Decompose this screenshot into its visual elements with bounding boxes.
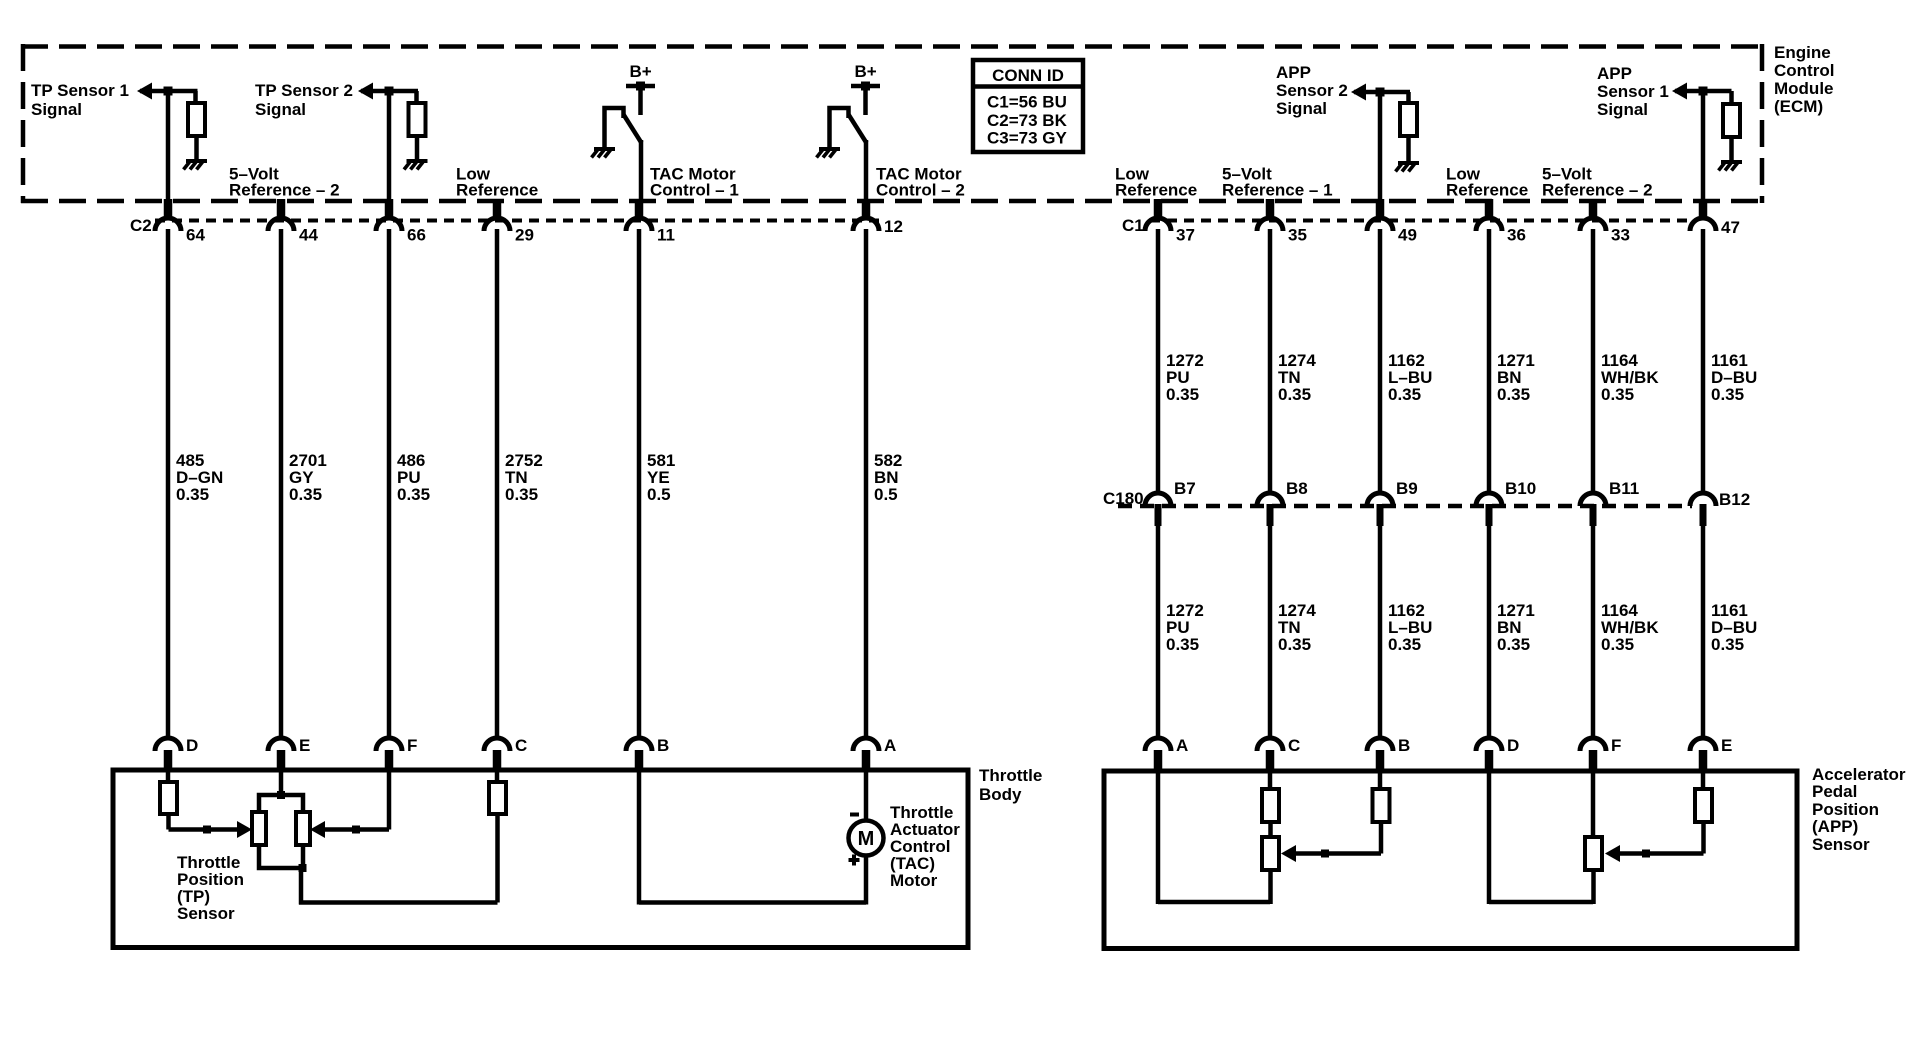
wire C resistor to TP bottom bbox=[495, 814, 500, 903]
potentiometer TP element left half bbox=[252, 812, 266, 845]
pin 49 ECM connector terminal bbox=[1367, 199, 1417, 245]
resistor APP2 wiper series bbox=[1373, 789, 1390, 822]
wire circuit 1162 0.35 upper segment bbox=[1378, 229, 1383, 494]
value label 1161 D&#8211;BU 0.35 lower bbox=[1711, 601, 1757, 654]
arrow APP1 wiper bbox=[1605, 845, 1620, 862]
svg-text:E: E bbox=[1721, 736, 1732, 755]
svg-text:A: A bbox=[1176, 736, 1188, 755]
svg-text:Throttle: Throttle bbox=[979, 766, 1042, 785]
label Accelerator Pedal Position (APP) Sensor bbox=[1812, 765, 1906, 854]
node TP wiper right junction bbox=[352, 826, 360, 834]
svg-text:49: 49 bbox=[1398, 226, 1417, 245]
value label 1274 TN 0.35 lower bbox=[1278, 601, 1316, 654]
ground TAC 2 contact bbox=[817, 108, 849, 158]
resistor TP1 pull-up bbox=[188, 103, 205, 136]
svg-text:B11: B11 bbox=[1609, 479, 1639, 498]
svg-text:C1: C1 bbox=[1122, 216, 1144, 235]
svg-text:Reference: Reference bbox=[456, 181, 538, 200]
pin C APP sensor connector bbox=[1257, 736, 1300, 771]
wire pin F into pot bbox=[1591, 770, 1596, 838]
wire pin E APP1 wiper bbox=[1701, 770, 1706, 790]
wire circuit 2701 0.35 bbox=[279, 229, 284, 739]
svg-text:0.35: 0.35 bbox=[1711, 385, 1744, 404]
node TP bottom junction bbox=[299, 864, 307, 872]
value label 582 BN 0.5 bbox=[874, 451, 902, 504]
wire circuit 1271 0.35 upper segment bbox=[1487, 229, 1492, 494]
net 5-Volt Reference - 2 (pin 44) bbox=[229, 165, 340, 200]
value label 485 D&#8211;GN 0.35 bbox=[176, 451, 223, 504]
svg-text:B+: B+ bbox=[855, 62, 877, 81]
ground TAC 1 contact bbox=[592, 108, 624, 158]
svg-text:Reference – 2: Reference – 2 bbox=[229, 181, 340, 200]
svg-text:Sensor 1: Sensor 1 bbox=[1597, 82, 1669, 101]
label Throttle Body bbox=[979, 766, 1042, 804]
svg-text:0.35: 0.35 bbox=[1278, 635, 1311, 654]
svg-text:Body: Body bbox=[979, 785, 1022, 804]
label APP Sensor 1 Signal bbox=[1597, 64, 1669, 119]
node APP2 junction bbox=[1376, 88, 1385, 97]
value label 1161 D&#8211;BU 0.35 upper bbox=[1711, 351, 1757, 404]
resistor TP sensor terminal C bbox=[489, 782, 506, 814]
pin 12 ECM connector terminal bbox=[853, 199, 903, 236]
arrow APP2 wiper bbox=[1281, 845, 1296, 862]
svg-text:M: M bbox=[858, 828, 875, 850]
wire TP1 horizontal bbox=[140, 89, 198, 94]
wire circuit 486 0.35 bbox=[387, 229, 392, 739]
Throttle Body box bbox=[113, 770, 968, 948]
label TP Sensor 2 Signal bbox=[255, 81, 353, 119]
svg-text:0.35: 0.35 bbox=[1601, 385, 1634, 404]
wire circuit 1274 0.35 upper segment bbox=[1268, 229, 1273, 494]
svg-text:Signal: Signal bbox=[31, 100, 82, 119]
resistor APP1 wiper series bbox=[1695, 789, 1712, 822]
wire pin D into box bbox=[166, 770, 171, 783]
power B+ TAC 2 bbox=[851, 62, 880, 115]
wire pin 47 internal bbox=[1701, 91, 1706, 202]
resistor APP2 series element bbox=[1262, 789, 1279, 822]
wire pin B APP2 wiper bbox=[1378, 770, 1383, 790]
value label 581 YE 0.5 bbox=[647, 451, 675, 504]
switch TAC motor control 2 blade bbox=[849, 115, 867, 144]
svg-text:B12: B12 bbox=[1719, 490, 1750, 509]
svg-text:(ECM): (ECM) bbox=[1774, 97, 1823, 116]
svg-text:0.35: 0.35 bbox=[289, 485, 322, 504]
wire resistor to ground bbox=[194, 136, 199, 161]
svg-text:APP: APP bbox=[1597, 64, 1632, 83]
svg-text:Signal: Signal bbox=[1597, 100, 1648, 119]
svg-text:Control – 2: Control – 2 bbox=[876, 181, 965, 200]
svg-text:D: D bbox=[1507, 736, 1519, 755]
wire resistor to ground bbox=[415, 136, 420, 161]
wire pin C into box bbox=[495, 770, 500, 783]
svg-text:(APP): (APP) bbox=[1812, 817, 1858, 836]
svg-text:Sensor: Sensor bbox=[1812, 835, 1870, 854]
wire circuit 582 0.5 bbox=[864, 229, 869, 739]
connector C180 dashed line bbox=[1118, 504, 1692, 509]
svg-text:0.35: 0.35 bbox=[397, 485, 430, 504]
pin B9 connector C180 bbox=[1367, 479, 1418, 526]
polarity minus bbox=[850, 813, 859, 817]
svg-text:TP Sensor 1: TP Sensor 1 bbox=[31, 81, 129, 100]
svg-text:C3=73 GY: C3=73 GY bbox=[987, 129, 1068, 148]
svg-text:Reference: Reference bbox=[1115, 181, 1197, 200]
svg-text:C1=56 BU: C1=56 BU bbox=[987, 93, 1067, 112]
svg-text:APP: APP bbox=[1276, 63, 1311, 82]
wire pin 49 internal bbox=[1378, 92, 1383, 202]
arrow TP wiper left bbox=[237, 821, 252, 838]
wire circuit 1274 0.35 lower segment bbox=[1268, 525, 1273, 739]
net Low Reference (pin 36) bbox=[1446, 165, 1528, 200]
value label 1271 BN 0.35 lower bbox=[1497, 601, 1535, 654]
wire circuit 2752 0.35 bbox=[495, 229, 500, 739]
net Low Reference (pin 29) bbox=[456, 165, 538, 200]
svg-text:0.35: 0.35 bbox=[1711, 635, 1744, 654]
wire pin D APP low bbox=[1487, 770, 1492, 904]
wire circuit 1164 0.35 upper segment bbox=[1591, 229, 1596, 494]
svg-text:B7: B7 bbox=[1174, 479, 1196, 498]
arrow APP Sensor 2 signal bbox=[1351, 84, 1366, 101]
wire pin E to TP top bbox=[279, 770, 284, 795]
net Low Reference (pin 37) bbox=[1115, 165, 1197, 200]
value label 2752 TN 0.35 bbox=[505, 451, 543, 504]
svg-text:B10: B10 bbox=[1505, 479, 1536, 498]
resistor APP2 pull-up bbox=[1400, 103, 1417, 136]
wire pin C into box bbox=[1268, 770, 1273, 790]
svg-text:0.35: 0.35 bbox=[1166, 385, 1199, 404]
svg-text:D: D bbox=[186, 736, 198, 755]
pin 33 ECM connector terminal bbox=[1580, 199, 1630, 245]
svg-text:C2=73 BK: C2=73 BK bbox=[987, 111, 1068, 130]
node APP1 wiper junction bbox=[1642, 850, 1650, 858]
label Throttle Actuator Control (TAC) Motor bbox=[890, 803, 960, 890]
wire circuit 1161 0.35 upper segment bbox=[1701, 229, 1706, 494]
wire wiper down and left bbox=[1701, 822, 1706, 854]
svg-text:A: A bbox=[884, 736, 896, 755]
pin D APP sensor connector bbox=[1476, 736, 1519, 771]
svg-text:E: E bbox=[299, 736, 310, 755]
svg-text:C180: C180 bbox=[1103, 489, 1144, 508]
node TP2 junction bbox=[385, 87, 394, 96]
node TP top junction bbox=[277, 791, 285, 799]
svg-text:Reference: Reference bbox=[1446, 181, 1528, 200]
label TAC Motor Control - 1 bbox=[650, 165, 739, 200]
power B+ TAC 1 bbox=[626, 62, 655, 115]
wire APP2 stub to resistor bbox=[1406, 92, 1411, 104]
svg-text:44: 44 bbox=[299, 226, 318, 245]
value label 2701 GY 0.35 bbox=[289, 451, 327, 504]
svg-text:Engine: Engine bbox=[1774, 43, 1831, 62]
label TAC Motor Control - 2 bbox=[876, 165, 965, 200]
polarity plus bbox=[849, 855, 860, 866]
wire pot to low rail bbox=[1268, 870, 1273, 904]
ground APP2 bbox=[1396, 163, 1420, 172]
svg-text:11: 11 bbox=[657, 226, 675, 245]
svg-text:Sensor: Sensor bbox=[177, 904, 235, 923]
svg-text:B: B bbox=[1398, 736, 1410, 755]
ECM dashed box border bbox=[21, 44, 1764, 203]
svg-text:B9: B9 bbox=[1396, 479, 1418, 498]
wire TP1 stub to resistor bbox=[193, 91, 198, 104]
pin 47 ECM connector terminal bbox=[1690, 199, 1740, 237]
wire resistor to ground bbox=[1729, 137, 1734, 162]
svg-text:0.35: 0.35 bbox=[1601, 635, 1634, 654]
svg-text:B+: B+ bbox=[630, 62, 652, 81]
potentiometer APP2 element bbox=[1262, 837, 1279, 870]
svg-text:Signal: Signal bbox=[1276, 99, 1327, 118]
svg-text:64: 64 bbox=[186, 226, 205, 245]
net 5-Volt Reference - 2 (pin 33) bbox=[1542, 165, 1653, 200]
potentiometer TP element right half bbox=[296, 812, 310, 845]
net 5-Volt Reference - 1 (pin 35) bbox=[1222, 165, 1333, 200]
svg-text:Module: Module bbox=[1774, 79, 1834, 98]
pin B7 connector C180 bbox=[1145, 479, 1196, 526]
svg-text:0.35: 0.35 bbox=[176, 485, 209, 504]
wire pin B to motor return bbox=[637, 770, 642, 905]
value label 1272 PU 0.35 lower bbox=[1166, 601, 1204, 654]
svg-text:29: 29 bbox=[515, 226, 534, 245]
wire circuit 581 0.5 bbox=[637, 229, 642, 739]
wire TP2 horizontal bbox=[361, 89, 418, 94]
value label 1274 TN 0.35 upper bbox=[1278, 351, 1316, 404]
pin C throttle body connector bbox=[484, 736, 527, 771]
pin 37 ECM connector terminal bbox=[1145, 199, 1195, 245]
label TP Sensor 1 Signal bbox=[31, 81, 129, 119]
wire TAC 2 to pin bbox=[864, 140, 869, 202]
svg-text:0.35: 0.35 bbox=[1166, 635, 1199, 654]
wire pin A to motor bbox=[864, 770, 869, 821]
ground TP2 bbox=[404, 161, 428, 170]
node TP wiper left junction bbox=[203, 826, 211, 834]
value label 1164 WH/BK 0.35 lower bbox=[1601, 601, 1659, 654]
svg-text:Pedal: Pedal bbox=[1812, 782, 1857, 801]
svg-text:C: C bbox=[515, 736, 527, 755]
node APP2 wiper junction bbox=[1321, 850, 1329, 858]
svg-text:0.5: 0.5 bbox=[874, 485, 898, 504]
svg-text:B: B bbox=[657, 736, 669, 755]
ground APP1 bbox=[1719, 162, 1743, 171]
svg-text:Signal: Signal bbox=[255, 100, 306, 119]
wire pin 64 internal bbox=[166, 91, 171, 202]
svg-text:12: 12 bbox=[884, 217, 903, 236]
wire APP2 horizontal bbox=[1354, 90, 1410, 95]
ground TP1 bbox=[184, 161, 208, 170]
wire circuit 1164 0.35 lower segment bbox=[1591, 525, 1596, 739]
pin B8 connector C180 bbox=[1257, 479, 1308, 526]
pin B10 connector C180 bbox=[1476, 479, 1536, 526]
svg-text:37: 37 bbox=[1176, 226, 1195, 245]
pin 44 ECM connector terminal bbox=[268, 199, 318, 245]
svg-text:35: 35 bbox=[1288, 226, 1307, 245]
svg-text:C2: C2 bbox=[130, 216, 152, 235]
CONN ID table bbox=[973, 60, 1083, 152]
pin A throttle body connector bbox=[853, 736, 896, 771]
connector C1 dotted line bbox=[1150, 219, 1692, 223]
wire APP1 stub to resistor bbox=[1729, 91, 1734, 105]
potentiometer APP1 element bbox=[1585, 837, 1602, 870]
label Throttle Position (TP) Sensor bbox=[177, 853, 244, 923]
wire wiper down and left bbox=[1379, 822, 1384, 854]
pin B throttle body connector bbox=[626, 736, 669, 771]
svg-text:0.35: 0.35 bbox=[1388, 385, 1421, 404]
connector C2 dotted line bbox=[155, 219, 884, 223]
value label 1164 WH/BK 0.35 upper bbox=[1601, 351, 1659, 404]
wire pin A APP low bbox=[1156, 770, 1161, 904]
wire D resistor to wiper arm bbox=[166, 814, 171, 830]
wire TAC 1 to pin bbox=[639, 140, 644, 202]
svg-text:Motor: Motor bbox=[890, 871, 938, 890]
svg-text:F: F bbox=[1611, 736, 1621, 755]
arrow TP wiper right bbox=[310, 821, 325, 838]
pin 11 ECM connector terminal bbox=[626, 199, 675, 245]
value label 486 PU 0.35 bbox=[397, 451, 430, 504]
svg-text:F: F bbox=[407, 736, 417, 755]
wire pot to low rail bbox=[1591, 870, 1596, 904]
wire pin F to right wiper bbox=[387, 770, 392, 830]
label APP Sensor 2 Signal bbox=[1276, 63, 1348, 118]
node TP1 junction bbox=[164, 87, 173, 96]
svg-text:TP Sensor 2: TP Sensor 2 bbox=[255, 81, 353, 100]
svg-text:0.35: 0.35 bbox=[1497, 635, 1530, 654]
wire circuit 1272 0.35 upper segment bbox=[1156, 229, 1161, 494]
wire motor to return bbox=[864, 855, 869, 905]
value label 1162 L&#8211;BU 0.35 lower bbox=[1388, 601, 1432, 654]
svg-text:0.35: 0.35 bbox=[1497, 385, 1530, 404]
pin 66 ECM connector terminal bbox=[376, 199, 426, 245]
wire circuit 1272 0.35 lower segment bbox=[1156, 525, 1161, 739]
svg-text:66: 66 bbox=[407, 226, 426, 245]
svg-text:0.35: 0.35 bbox=[1388, 635, 1421, 654]
svg-text:0.35: 0.35 bbox=[505, 485, 538, 504]
pin D throttle body connector bbox=[155, 736, 198, 771]
wire TP bottom bracket bbox=[259, 844, 303, 868]
switch TAC motor control 1 blade bbox=[624, 115, 642, 144]
wire resistor to ground bbox=[1406, 136, 1411, 163]
pin E throttle body connector bbox=[268, 736, 310, 771]
svg-text:33: 33 bbox=[1611, 226, 1630, 245]
resistor TP2 pull-up bbox=[409, 103, 426, 136]
value label 1162 L&#8211;BU 0.35 upper bbox=[1388, 351, 1432, 404]
svg-text:Sensor 2: Sensor 2 bbox=[1276, 81, 1348, 100]
svg-text:Control – 1: Control – 1 bbox=[650, 181, 739, 200]
arrow TP Sensor 1 signal bbox=[137, 83, 152, 100]
Accelerator Pedal Position sensor box bbox=[1104, 771, 1797, 949]
wire circuit 485 0.35 bbox=[166, 229, 171, 739]
value label 1271 BN 0.35 upper bbox=[1497, 351, 1535, 404]
value label 1272 PU 0.35 upper bbox=[1166, 351, 1204, 404]
wire circuit 1162 0.35 lower segment bbox=[1378, 525, 1383, 739]
svg-text:B8: B8 bbox=[1286, 479, 1308, 498]
pin B12 connector C180 bbox=[1690, 490, 1750, 526]
wire APP1 horizontal bbox=[1675, 89, 1732, 94]
svg-text:CONN ID: CONN ID bbox=[992, 66, 1064, 85]
svg-text:Control: Control bbox=[1774, 61, 1834, 80]
pin 36 ECM connector terminal bbox=[1476, 199, 1526, 245]
arrow TP Sensor 2 signal bbox=[358, 83, 373, 100]
wire TP top bracket bbox=[259, 795, 303, 813]
svg-text:C: C bbox=[1288, 736, 1300, 755]
wire TP2 stub to resistor bbox=[414, 91, 419, 104]
svg-text:Reference – 2: Reference – 2 bbox=[1542, 181, 1653, 200]
pin 64 ECM connector terminal bbox=[155, 199, 205, 245]
wire between resistor and pot bbox=[1268, 822, 1273, 838]
motor TAC M circle bbox=[849, 821, 884, 856]
label Engine Control Module (ECM) bbox=[1774, 43, 1834, 116]
wire circuit 1271 0.35 lower segment bbox=[1487, 525, 1492, 739]
arrow APP Sensor 1 signal bbox=[1672, 83, 1687, 100]
resistor APP1 pull-up bbox=[1723, 104, 1740, 137]
pin B APP sensor connector bbox=[1367, 736, 1410, 771]
svg-text:Reference – 1: Reference – 1 bbox=[1222, 181, 1333, 200]
pin E APP sensor connector bbox=[1690, 736, 1732, 771]
svg-text:47: 47 bbox=[1721, 218, 1740, 237]
pin F APP sensor connector bbox=[1580, 736, 1621, 771]
pin 35 ECM connector terminal bbox=[1257, 199, 1307, 245]
pin F throttle body connector bbox=[376, 736, 417, 771]
pin A APP sensor connector bbox=[1145, 736, 1188, 771]
pin 29 ECM connector terminal bbox=[484, 199, 534, 245]
svg-text:0.35: 0.35 bbox=[1278, 385, 1311, 404]
wire circuit 1161 0.35 lower segment bbox=[1701, 525, 1706, 739]
svg-text:0.5: 0.5 bbox=[647, 485, 671, 504]
wire pin 66 internal bbox=[387, 91, 392, 202]
resistor TP sensor terminal D bbox=[160, 782, 177, 814]
pin B11 connector C180 bbox=[1580, 479, 1639, 526]
node APP1 junction bbox=[1699, 87, 1708, 96]
svg-text:36: 36 bbox=[1507, 226, 1526, 245]
